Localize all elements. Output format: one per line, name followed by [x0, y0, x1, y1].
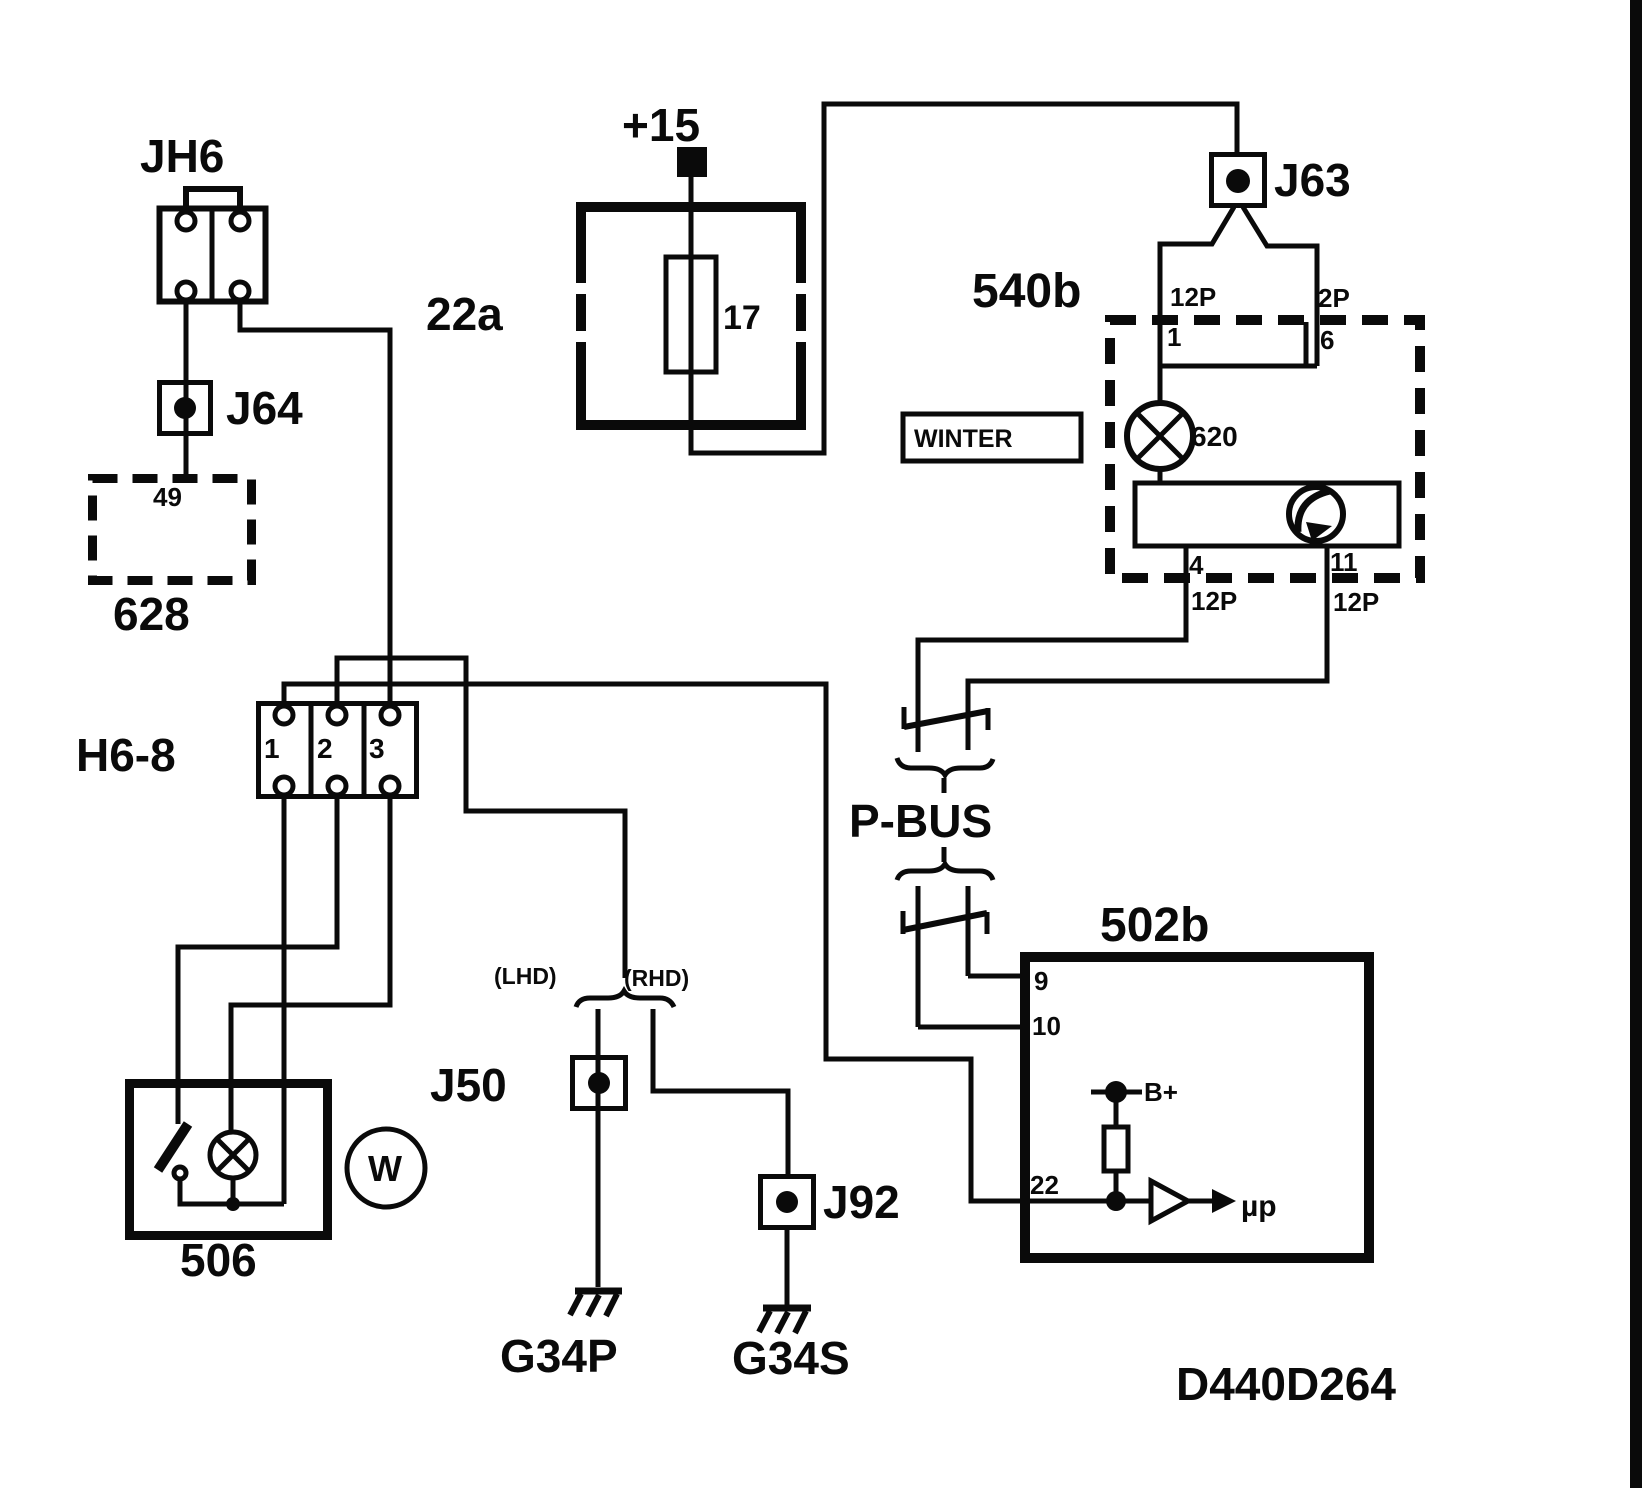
svg-text:(LHD): (LHD) [494, 963, 557, 989]
control unit 502b box [1025, 957, 1369, 1258]
twisted pair top [904, 707, 988, 752]
label (RHD) [624, 965, 689, 991]
wire J63 right branch to pin6 [1243, 207, 1317, 366]
H6-8 cell label 1 [264, 733, 280, 764]
label JH6 [140, 130, 224, 182]
wire H6-8 pin1 down into 506 [282, 795, 287, 1204]
wire pin1 to pin6 link [1160, 322, 1317, 366]
label 2P right [1318, 283, 1350, 313]
label 12P bottom-right [1333, 587, 1379, 617]
svg-text:J92: J92 [823, 1176, 900, 1228]
label J64 [226, 382, 303, 434]
svg-text:P-BUS: P-BUS [849, 795, 992, 847]
svg-text:WINTER: WINTER [914, 425, 1013, 453]
brace under twisted pair top [897, 758, 993, 775]
pin 9 label [1034, 966, 1048, 996]
amplifier buffer [1151, 1181, 1236, 1221]
label 12P bottom-left [1191, 586, 1237, 616]
label microprocessor [1241, 1190, 1277, 1223]
H6-8 pin3 top circle [381, 706, 399, 724]
svg-text:10: 10 [1032, 1011, 1061, 1041]
svg-text:µp: µp [1241, 1190, 1277, 1223]
svg-text:12P: 12P [1333, 587, 1379, 617]
svg-text:540b: 540b [972, 265, 1081, 318]
splice J50 [573, 1058, 626, 1109]
svg-text:JH6: JH6 [140, 130, 224, 182]
label G34P [500, 1330, 618, 1382]
lamp 620 [1127, 403, 1193, 469]
wire H6-8 pin3 down to 506 lamp [231, 795, 390, 1133]
brace under RHD [576, 991, 674, 1007]
label J92 [823, 1176, 900, 1228]
splice J63 [1212, 155, 1265, 206]
svg-text:620: 620 [1191, 421, 1238, 452]
label G34S [732, 1332, 850, 1384]
fusebox 22a border [573, 207, 809, 425]
svg-text:11: 11 [1330, 547, 1358, 577]
svg-text:628: 628 [113, 588, 190, 640]
indicator W [347, 1129, 425, 1207]
wire J63 left branch to pin1 [1160, 207, 1234, 404]
wire H6-8 pin2 up to RHD branch [337, 658, 625, 978]
pin 6 label [1320, 325, 1334, 355]
wire P-BUS to pin9 [968, 974, 1030, 979]
wire +15 through fuse to J63 [691, 104, 1237, 453]
H6-8 cell label 2 [317, 733, 333, 764]
label 540b [972, 265, 1081, 318]
label H6-8 [76, 729, 176, 781]
svg-text:(RHD): (RHD) [624, 965, 689, 991]
H6-8 pin3 bottom circle [381, 777, 399, 795]
label J63 [1274, 154, 1351, 206]
scan border bar right [1630, 0, 1642, 1488]
resistor in 502b [1104, 1092, 1128, 1201]
switch blade in 506 [158, 1124, 284, 1204]
junction node pin22 [1030, 1191, 1151, 1211]
label 12P left [1170, 282, 1216, 312]
svg-text:49: 49 [153, 482, 182, 512]
brace above twisted pair bottom [897, 864, 993, 880]
svg-text:J50: J50 [430, 1059, 507, 1111]
H6-8 cell label 3 [369, 733, 385, 764]
wire brace to J92 [653, 1009, 788, 1176]
pin 1 label [1167, 322, 1181, 352]
connector JH6 pin bottom-right [231, 282, 249, 300]
svg-text:W: W [368, 1148, 402, 1189]
dash above P-BUS [942, 778, 947, 793]
pin 22 label [1030, 1170, 1059, 1200]
wire H6-8 pin2 down to 506 switch [178, 795, 337, 1124]
svg-text:2: 2 [317, 733, 333, 764]
pin 49 label [153, 482, 182, 512]
twisted pair bottom [903, 886, 987, 1027]
wire JH6 right pin to H6-8 pin3 [240, 300, 390, 706]
svg-text:J64: J64 [226, 382, 303, 434]
svg-text:502b: 502b [1100, 899, 1209, 952]
ground G34P [570, 1291, 622, 1316]
H6-8 pin2 bottom circle [328, 777, 346, 795]
H6-8 pin2 top circle [328, 706, 346, 724]
svg-text:D440D264: D440D264 [1176, 1358, 1396, 1410]
label P-BUS [849, 795, 992, 847]
svg-text:9: 9 [1034, 966, 1048, 996]
pin 10 label [1032, 1011, 1061, 1041]
connector JH6 jumper bridge [186, 189, 240, 210]
node B+ [1091, 1077, 1178, 1107]
label J50 [430, 1059, 507, 1111]
svg-text:1: 1 [1167, 322, 1181, 352]
svg-text:4: 4 [1189, 550, 1204, 580]
wire lamp to blower [1158, 469, 1163, 483]
node +15 [622, 99, 700, 151]
splice J92 [761, 1177, 814, 1228]
svg-text:1: 1 [264, 733, 280, 764]
label 502b [1100, 899, 1209, 952]
pin 4 label [1189, 550, 1204, 580]
svg-text:H6-8: H6-8 [76, 729, 176, 781]
wire P-BUS to pin10 [918, 1025, 1030, 1030]
label 17 [723, 299, 761, 337]
wire brace to J50 [596, 1009, 601, 1287]
label 22a [426, 288, 503, 340]
power terminal +15 square [677, 147, 707, 177]
label 628 [113, 588, 190, 640]
fuse 17 element [666, 257, 716, 372]
connector JH6 pin top-right [231, 212, 249, 230]
ground G34S [759, 1308, 811, 1333]
wire pin11 to P-BUS top [968, 546, 1327, 707]
connector JH6 pin top-left [177, 212, 195, 230]
dash below P-BUS [942, 847, 947, 862]
connector H6-8 body [259, 703, 417, 797]
unit 540b dashed box [1110, 320, 1420, 578]
splice J64 [160, 383, 211, 434]
svg-text:17: 17 [723, 299, 761, 337]
switch unit 506 box [130, 1084, 328, 1236]
svg-text:22: 22 [1030, 1170, 1059, 1200]
wire J92 to ground [785, 1228, 790, 1308]
label 506 [180, 1234, 257, 1286]
svg-text:G34S: G34S [732, 1332, 850, 1384]
svg-text:12P: 12P [1191, 586, 1237, 616]
svg-text:22a: 22a [426, 288, 503, 340]
label (LHD) [494, 963, 557, 989]
H6-8 pin1 top circle [275, 706, 293, 724]
svg-text:2P: 2P [1318, 283, 1350, 313]
blower unit box [1135, 483, 1399, 546]
svg-text:G34P: G34P [500, 1330, 618, 1382]
pin 11 label [1330, 547, 1358, 577]
connector JH6 pin bottom-left [177, 282, 195, 300]
svg-text:12P: 12P [1170, 282, 1216, 312]
label 620 [1191, 421, 1238, 452]
svg-text:J63: J63 [1274, 154, 1351, 206]
svg-text:+15: +15 [622, 99, 700, 151]
blower motor symbol [1289, 487, 1343, 541]
wire H6-8 pin1 up and right to down wire [284, 684, 1030, 1201]
label WINTER box [903, 414, 1081, 461]
svg-text:B+: B+ [1144, 1077, 1178, 1107]
svg-text:6: 6 [1320, 325, 1334, 355]
svg-text:3: 3 [369, 733, 385, 764]
wire JH6 to J64 [184, 300, 189, 474]
connector JH6 body [160, 208, 266, 302]
relay 628 dashed box [93, 479, 252, 581]
H6-8 pin1 bottom circle [275, 777, 293, 795]
label D440D264 [1176, 1358, 1396, 1410]
lamp in 506 [210, 1132, 256, 1211]
wire pin4 to P-BUS top [918, 546, 1186, 707]
svg-text:506: 506 [180, 1234, 257, 1286]
